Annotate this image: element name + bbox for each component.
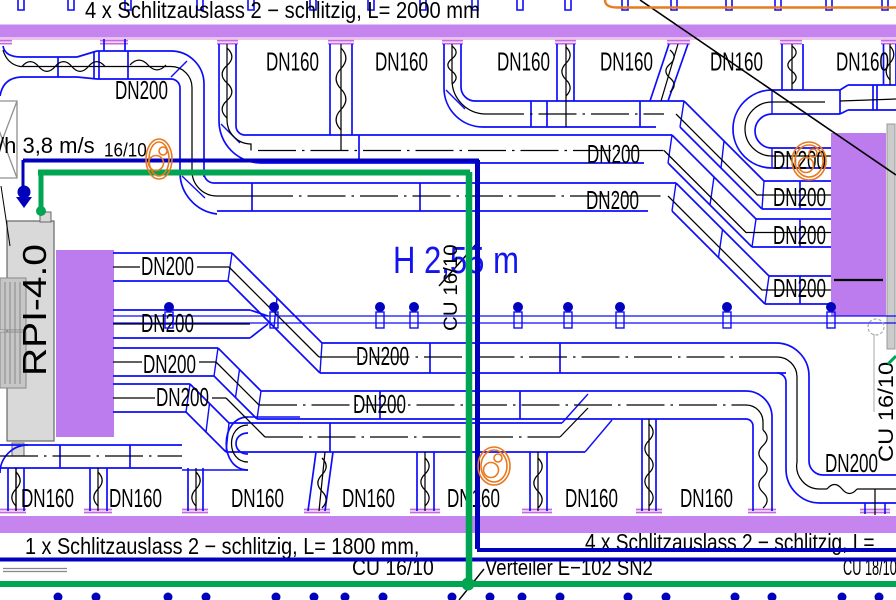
purple branch connection marks above bottom band	[0, 510, 890, 513]
svg-text:DN200: DN200	[773, 220, 826, 250]
svg-text:CU 16/10: CU 16/10	[441, 244, 462, 331]
svg-text:DN200: DN200	[356, 341, 409, 371]
svg-text:DN200: DN200	[143, 349, 196, 379]
svg-text:DN160: DN160	[836, 47, 889, 77]
svg-text:DN200: DN200	[586, 185, 639, 215]
svg-text:DN160: DN160	[266, 47, 319, 77]
svg-text:DN160: DN160	[447, 483, 500, 513]
svg-text:DN160: DN160	[600, 47, 653, 77]
navy pipe lines, valve triangle, damper dots	[23, 159, 479, 163]
blue duct network	[21, 56, 77, 58]
svg-text:DN200: DN200	[156, 382, 209, 412]
svg-text:DN160: DN160	[710, 47, 763, 77]
top slot-outlet purple band	[0, 25, 896, 38]
AHU unit top tab	[40, 212, 51, 222]
purple branch connection marks below top band	[0, 41, 896, 44]
top band lower pink edge	[0, 38, 896, 40]
svg-text:4 x Schlitzauslass 2 − schlitz: 4 x Schlitzauslass 2 − schlitzig, L= 200…	[85, 0, 480, 23]
svg-text:DN160: DN160	[680, 483, 733, 513]
svg-text:DN160: DN160	[231, 483, 284, 513]
svg-text:16/10: 16/10	[104, 140, 147, 161]
black centrelines, flex symbols, leaders	[3, 50, 255, 196]
svg-text:DN200: DN200	[353, 389, 406, 419]
AHU inner machine block 2	[0, 332, 26, 388]
svg-text:DN160: DN160	[109, 483, 162, 513]
svg-text:DN200: DN200	[115, 75, 168, 105]
svg-text:DN160: DN160	[342, 483, 395, 513]
row of slot-outlet clip symbols top edge	[18, 0, 888, 10]
svg-text:DN160: DN160	[565, 483, 618, 513]
svg-text:DN200: DN200	[825, 448, 878, 478]
svg-text:DN200: DN200	[141, 251, 194, 281]
AHU inner detail lines	[5, 282, 20, 384]
svg-text:CU 16/10: CU 16/10	[874, 362, 896, 462]
svg-text:DN200: DN200	[587, 139, 640, 169]
grey symbol right side	[868, 319, 884, 335]
svg-text:/h 3,8 m/s: /h 3,8 m/s	[0, 133, 95, 158]
green heating pipe	[38, 170, 470, 176]
svg-text:DN160: DN160	[497, 47, 550, 77]
bottom slot-outlet purple band	[0, 516, 896, 533]
AHU inner machine block 1	[0, 278, 26, 330]
svg-text:DN160: DN160	[21, 483, 74, 513]
fan X-box outline	[0, 101, 17, 178]
left supply shaft purple rect	[56, 250, 114, 437]
svg-text:DN160: DN160	[375, 47, 428, 77]
right wall grey bar	[887, 124, 895, 349]
svg-text:DN200: DN200	[773, 182, 826, 212]
svg-text:DN200: DN200	[773, 273, 826, 303]
right supply shaft purple rect	[831, 133, 886, 316]
AHU unit body	[7, 221, 54, 441]
svg-text:RPI-4.0: RPI-4.0	[16, 244, 53, 376]
orange condensate line and pump symbols	[605, 0, 896, 8]
svg-text:DN200: DN200	[141, 308, 194, 338]
AHU unit bottom tab	[12, 443, 24, 456]
